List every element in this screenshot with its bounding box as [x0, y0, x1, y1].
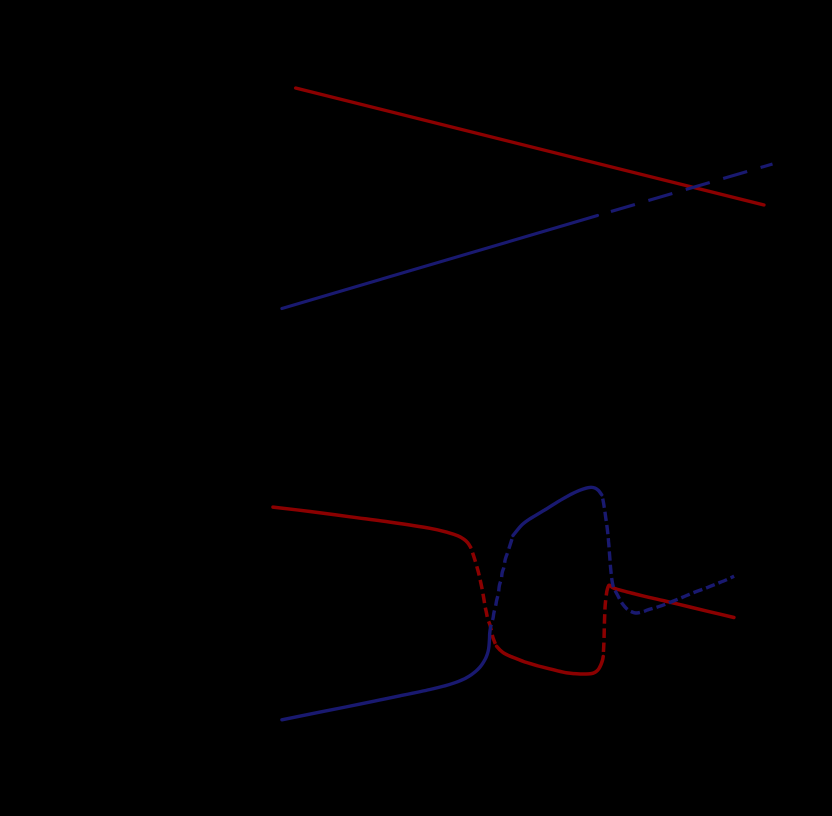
bottom panel: red curve, first steep drop (dashed)	[471, 547, 497, 646]
bottom panel: red curve, steep rise (dashed)	[603, 592, 607, 657]
bottom panel: red adiabatic curve, upper-left solid branch	[273, 507, 471, 547]
bottom panel: red curve, bottom basin solid branch	[497, 646, 604, 674]
bottom panel: blue adiabatic curve, lower-left solid branch	[282, 635, 490, 720]
top panel: blue line solid portion (ascending)	[282, 216, 598, 309]
bottom panel: red curve, right tail solid branch	[607, 585, 734, 617]
bottom panel: blue curve, top hump solid branch	[513, 487, 602, 535]
top panel: red diabatic line (solid, descending)	[296, 88, 764, 205]
top panel: blue line dashed continuation	[598, 164, 773, 216]
bottom panel: blue curve, steep descent + dip + rising right tail (dashed)	[602, 495, 734, 613]
bottom panel: blue curve, first steep rise (dashed)	[490, 536, 513, 635]
